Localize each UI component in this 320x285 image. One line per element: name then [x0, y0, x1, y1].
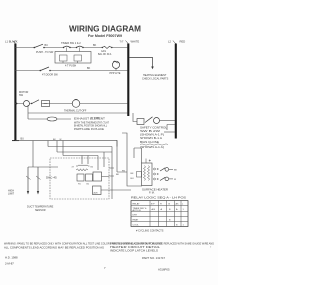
svg-text:L2: L2	[168, 40, 171, 44]
svg-text:BK: BK	[174, 169, 177, 171]
wire rung1	[15, 47, 128, 49]
svg-text:ALL COMPONENTS LEAD ACCORDING: ALL COMPONENTS LEAD ACCORDING MAY BE REP…	[4, 247, 104, 250]
svg-text:4T: 4T	[72, 167, 75, 169]
safety control blade	[145, 117, 153, 123]
control module square	[93, 172, 102, 181]
svg-text:AUX: AUX	[94, 192, 99, 195]
svg-text:BK: BK	[87, 67, 91, 70]
svg-text:PART NO. 131747: PART NO. 131747	[142, 256, 165, 260]
safety control link wire	[133, 113, 137, 122]
svg-text:B: B	[169, 209, 171, 211]
wire branch vertical	[27, 105, 29, 119]
heater left tag	[137, 172, 142, 178]
svg-text:SAFETY CONTROL: SAFETY CONTROL	[140, 127, 168, 130]
svg-text:BK: BK	[116, 174, 119, 176]
bus L1	[14, 44, 16, 141]
safety control box	[137, 119, 144, 125]
wire stub L2 c	[164, 131, 175, 133]
heating element check note arrow	[129, 58, 152, 68]
heater thermostat 1	[160, 168, 165, 171]
svg-text:AX: AX	[176, 203, 179, 206]
wire dkc out right	[101, 168, 131, 190]
svg-text:7: 7	[104, 266, 106, 270]
svg-text:SHOWN B-1 A: SHOWN B-1 A	[140, 137, 163, 140]
svg-text:BK: BK	[93, 44, 97, 47]
fuse 30A	[103, 46, 112, 48]
timer inner contact block 1	[60, 55, 68, 61]
svg-text:HEATER CIRCUIT DETAIL: HEATER CIRCUIT DETAIL	[110, 246, 161, 249]
wire rung y113	[28, 112, 128, 114]
svg-text:PARTS ARE IN PLACE: PARTS ARE IN PLACE	[74, 128, 105, 131]
motor main winding	[72, 100, 80, 108]
node L1 strain tick	[13, 41, 16, 45]
lamp drum lite	[112, 61, 119, 68]
relay coil H1	[77, 174, 84, 181]
overload protector oval	[47, 117, 57, 121]
svg-text:WHITE: WHITE	[131, 40, 140, 44]
relay coil B1	[86, 174, 93, 181]
wire bus L1 foot	[12, 140, 19, 142]
svg-text:GAS: GAS	[101, 50, 106, 53]
svg-text:SW: SW	[19, 94, 24, 97]
svg-text:"N": "N"	[120, 40, 124, 44]
heater thermostat 2	[160, 177, 165, 180]
dkc-45 box	[50, 158, 109, 199]
door switch	[41, 67, 50, 71]
timer contacts 1 and 2	[64, 46, 84, 47]
svg-text:B1: B1	[87, 184, 90, 186]
svg-text:WITH THE THERMOSTAT (T) AT: WITH THE THERMOSTAT (T) AT	[74, 121, 110, 124]
svg-text:BAL OF 30 A: BAL OF 30 A	[98, 53, 112, 56]
svg-text:(SHOWN A-1 P): (SHOWN A-1 P)	[140, 134, 164, 137]
svg-text:PRINTED WIRING CONTROL FOR UNI: PRINTED WIRING CONTROL FOR UNIT	[110, 244, 163, 246]
wire dkc feed top	[15, 141, 117, 167]
svg-text:RELAY LOGIC SEQ A - LH POS: RELAY LOGIC SEQ A - LH POS	[131, 197, 187, 200]
svg-text:# CYCLING CONTACTS: # CYCLING CONTACTS	[136, 230, 164, 233]
svg-text:2-M-87: 2-M-87	[5, 262, 14, 266]
svg-text:SW B 2W: SW B 2W	[140, 131, 162, 133]
svg-text:B P: B P	[151, 204, 155, 206]
svg-text:A: A	[176, 208, 178, 211]
wire motor rung	[15, 103, 128, 105]
svg-text:(SHOWN A-1 A): (SHOWN A-1 A)	[140, 146, 164, 149]
svg-text:RELAY: RELAY	[133, 203, 141, 206]
svg-text:BU: BU	[131, 178, 134, 180]
probes top wire	[28, 166, 58, 168]
wire overload branch	[28, 118, 71, 120]
heater terminal marks	[154, 168, 156, 170]
svg-text:INDICATE LOOP LATCH LEVELS: INDICATE LOOP LATCH LEVELS	[110, 249, 159, 252]
heater top stub	[146, 159, 151, 164]
svg-text:1: 1	[183, 224, 185, 226]
heater coil 1	[144, 166, 146, 181]
svg-text:H: H	[160, 204, 162, 206]
svg-text:BK: BK	[131, 173, 134, 175]
svg-text:PPP LITE: PPP LITE	[110, 72, 121, 75]
svg-text:P. M.: P. M.	[149, 191, 155, 194]
svg-text:B: B	[176, 224, 178, 226]
timer inner contact block 2	[74, 55, 82, 61]
svg-text:For Model F5007W9: For Model F5007W9	[88, 34, 122, 38]
safety control coil circle	[154, 118, 160, 124]
heater coil 2	[148, 166, 150, 181]
svg-text:4 T PUSH: 4 T PUSH	[65, 65, 76, 68]
wire mid link a	[122, 133, 142, 186]
wire dkc feed mid	[48, 147, 112, 200]
svg-text:A B: A B	[152, 208, 156, 211]
svg-text:TIMER SW 1 & 2: TIMER SW 1 & 2	[61, 41, 81, 45]
svg-text:A316P05: A316P05	[158, 268, 170, 272]
svg-text:DRY: DRY	[133, 214, 138, 216]
motor protector box	[42, 101, 50, 107]
heater element box	[142, 163, 153, 186]
wire mid link c	[134, 148, 142, 163]
svg-text:DKC-45: DKC-45	[46, 176, 57, 180]
svg-text:BI-METAL POSITION SHOWN ALL: BI-METAL POSITION SHOWN ALL	[74, 125, 108, 128]
wire rung2	[15, 70, 128, 72]
svg-text:A: A	[161, 208, 163, 211]
svg-text:W: W	[174, 179, 177, 181]
svg-text:THERMAL CUT-OFF: THERMAL CUT-OFF	[64, 110, 87, 113]
wire mid link b	[116, 140, 118, 147]
svg-text:CHECK LOCAL PARTS: CHECK LOCAL PARTS	[142, 78, 169, 81]
svg-text:AUTO B: AUTO B	[133, 209, 142, 212]
svg-text:HEAT: HEAT	[133, 218, 139, 221]
timer box	[55, 52, 91, 64]
bus L2	[175, 44, 177, 139]
node N strain tick	[126, 41, 129, 45]
node L2 strain tick	[173, 41, 176, 45]
duct sensor probe 1	[27, 167, 29, 192]
svg-text:BU: BU	[45, 44, 49, 47]
wire dkc feed low	[117, 141, 127, 172]
svg-text:L1 BLACK: L1 BLACK	[5, 40, 18, 44]
svg-text:H.D. 1988: H.D. 1988	[5, 256, 18, 260]
svg-text:BIAS CLOSE: BIAS CLOSE	[140, 141, 160, 144]
svg-text:L: L	[182, 204, 184, 206]
relay table frame	[131, 201, 188, 227]
svg-text:B2: B2	[91, 167, 94, 169]
relay table v lines	[150, 201, 181, 227]
switch push-to-start	[35, 44, 44, 47]
centrifugal switch	[32, 100, 39, 104]
bus N	[127, 44, 129, 117]
motor start winding circle	[24, 101, 30, 107]
svg-text:B: B	[169, 219, 171, 221]
duct sensor probe 2	[37, 167, 39, 192]
svg-text:WIRING DIAGRAM: WIRING DIAGRAM	[69, 24, 141, 34]
relay table h lines	[131, 206, 188, 222]
svg-text:PUSH - TO SW: PUSH - TO SW	[36, 51, 54, 54]
svg-text:SENSOR: SENSOR	[35, 209, 46, 212]
svg-text:BU: BU	[21, 138, 25, 141]
svg-text:RED: RED	[180, 40, 186, 44]
svg-text:SURFACE HEATER: SURFACE HEATER	[142, 188, 168, 191]
svg-text:EXHAUST ELEMENT: EXHAUST ELEMENT	[74, 116, 105, 120]
wire to L2	[160, 120, 176, 122]
svg-text:COOL: COOL	[133, 224, 140, 226]
svg-text:LIMIT: LIMIT	[8, 193, 15, 196]
wire stub L2 b	[167, 125, 175, 131]
svg-text:4T DOOR SW: 4T DOOR SW	[42, 74, 58, 77]
svg-text:B: B	[169, 204, 171, 206]
svg-text:4T STAT: 4T STAT	[91, 117, 100, 120]
resistor inside dkc	[76, 165, 90, 171]
aux square	[93, 186, 102, 195]
svg-text:1: 1	[183, 209, 185, 211]
svg-text:H1: H1	[78, 184, 81, 186]
